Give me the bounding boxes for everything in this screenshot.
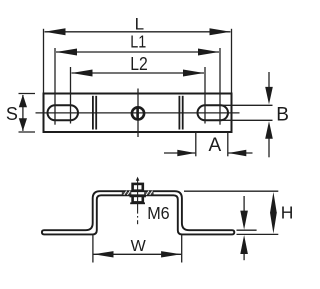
dimension H extension line bottom xyxy=(237,233,279,235)
dimension L line xyxy=(45,31,231,33)
svg-text:B: B xyxy=(276,105,289,126)
dimension H extension line top xyxy=(184,190,278,192)
dimension S tick bottom xyxy=(19,131,36,133)
weld nut washer nub right xyxy=(144,195,146,197)
dimension S tick top xyxy=(19,93,36,95)
dimension W extension line left xyxy=(92,235,94,263)
dimension A arrow right xyxy=(228,150,246,156)
thickness arrow up xyxy=(240,235,248,254)
dimension B arrow line upper xyxy=(268,72,270,88)
bend line left pair xyxy=(92,96,94,130)
weld hatch left xyxy=(122,192,132,194)
slot left xyxy=(48,105,79,120)
dimension A line right xyxy=(228,152,252,154)
dimension L2 arrow left xyxy=(72,70,93,77)
dimension L arrow left xyxy=(45,28,66,35)
svg-text:H: H xyxy=(281,203,294,223)
svg-text:L2: L2 xyxy=(130,53,148,74)
svg-text:A: A xyxy=(209,135,222,156)
dimension L1 extension lines xyxy=(54,48,56,125)
svg-text:W: W xyxy=(131,238,147,255)
thickness arrow down xyxy=(240,211,248,230)
weld nut upper block xyxy=(133,184,143,191)
centerline vertical through center hole xyxy=(137,89,139,138)
dimension B arrow down xyxy=(265,87,273,105)
weld nut bottom flange xyxy=(130,202,145,204)
dimension W arrow left xyxy=(94,251,114,257)
screw axis arrow xyxy=(136,177,140,181)
dimension W arrow right xyxy=(161,251,181,257)
dimension H arrow up xyxy=(270,192,277,213)
svg-text:L1: L1 xyxy=(130,32,146,52)
svg-text:M6: M6 xyxy=(147,203,170,223)
dimension S arrow line xyxy=(22,95,24,131)
dimension L arrow right xyxy=(210,28,231,35)
dimension L2 extension lines xyxy=(70,67,72,124)
dimension A extension lines xyxy=(195,133,197,157)
dimension S arrow up xyxy=(19,95,27,108)
dimension L1 line xyxy=(56,51,219,53)
dimension A arrow left xyxy=(177,150,195,156)
dimension L1 arrow left xyxy=(56,49,77,56)
dimension B extension lines xyxy=(222,104,273,106)
weld nut washer nub left xyxy=(130,195,132,197)
slot right xyxy=(198,105,229,120)
side view strap profile xyxy=(42,191,234,234)
top view bar body xyxy=(44,94,232,133)
thickness extension line xyxy=(237,229,257,231)
center hole xyxy=(132,107,144,119)
dimension L2 line xyxy=(72,72,205,74)
dimension A line left xyxy=(164,152,195,154)
dimension W extension line right xyxy=(181,235,183,263)
svg-text:S: S xyxy=(6,104,18,124)
dimension L1 arrow right xyxy=(198,49,219,56)
weld nut lower block xyxy=(133,196,143,203)
dimension L extension lines xyxy=(43,29,45,93)
dimension L2 arrow right xyxy=(183,70,204,77)
dimension S arrow down xyxy=(19,118,27,131)
screw axis centerline xyxy=(137,181,139,214)
center hole bold axis bar xyxy=(136,106,139,120)
dimension B arrow line lower xyxy=(268,138,270,157)
dimension H arrow down xyxy=(270,213,277,234)
bend line right pair xyxy=(178,96,180,130)
thickness arrow line upper xyxy=(243,196,245,212)
dimension B arrow up xyxy=(265,121,273,139)
centerline horizontal through slots xyxy=(36,112,240,114)
thickness arrow line lower xyxy=(243,253,245,260)
dimension W line xyxy=(94,253,182,255)
weld hatch right xyxy=(144,192,154,194)
